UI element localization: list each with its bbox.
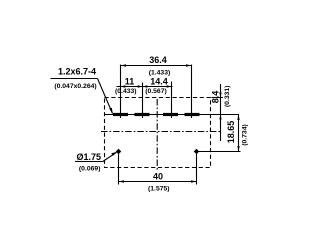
arrow 36.4 left [121,64,127,67]
right hole reference line [198,151,241,153]
arrow 11 left [121,85,126,87]
dimension 18.65 line [238,115,240,152]
arrow 18.65 top [237,115,239,121]
extension line slot1 [120,65,122,119]
leader to left hole [103,152,117,161]
vertical centerline [156,99,158,171]
slot 1 [113,113,128,116]
arrow leader slot1 [109,108,113,114]
dimension 36.4 line [121,65,192,67]
arrow 11/14.4 mid left [138,85,143,87]
arrow 40 right [191,180,197,183]
svg-text:14.4: 14.4 [150,76,168,86]
svg-text:(1.575): (1.575) [148,186,170,193]
arrow leader left hole [111,152,117,156]
svg-text:Ø1.75: Ø1.75 [77,152,102,162]
svg-text:(0.433): (0.433) [115,88,137,95]
arrow 36.4 right [186,64,192,67]
right hole diamond [194,149,200,155]
horizontal centerline [101,131,222,133]
extension line slot2 [142,83,144,119]
left hole diamond [116,149,122,155]
arrow 14.4 right [167,85,172,87]
leader to slot 1 [98,79,113,114]
slot cut line [105,114,239,116]
arrow 8.4 bottom (points up to slot line) [219,115,221,120]
right hole extension down [196,154,198,185]
dimension 8.4 line [220,84,222,141]
svg-text:11: 11 [125,76,135,86]
left hole extension down [118,154,120,185]
slot 2 [135,113,150,116]
label underline dia 1.75 [75,161,103,163]
label underline 1.2x6.7-4 [51,78,98,80]
slot 3 [163,113,178,116]
svg-text:8.4: 8.4 [210,91,220,104]
svg-text:(0.069): (0.069) [79,165,101,172]
arrow 18.65 bottom [237,146,239,152]
svg-text:(0.567): (0.567) [145,88,167,95]
svg-text:40: 40 [153,171,163,181]
svg-text:36.4: 36.4 [149,55,167,65]
arrow 14.4 mid right [143,85,148,87]
arrow 40 left [119,180,125,183]
dimension 11/14.4 line [117,86,173,88]
svg-text:1.2x6.7-4: 1.2x6.7-4 [58,67,96,77]
svg-text:(0.047x0.264): (0.047x0.264) [54,83,96,90]
extension line slot3 [171,82,173,119]
relay body outline dashed rect [105,98,211,168]
extension line slot4 [191,65,193,119]
dimension 40 line [119,181,197,183]
slot 4 [185,113,200,116]
svg-text:18.65: 18.65 [226,121,236,144]
svg-text:(0.331): (0.331) [224,86,231,108]
dimension 8.4 top extension [212,97,224,99]
arrow 8.4 top (points down to top edge) [219,93,221,98]
svg-text:(0.734): (0.734) [242,124,249,146]
